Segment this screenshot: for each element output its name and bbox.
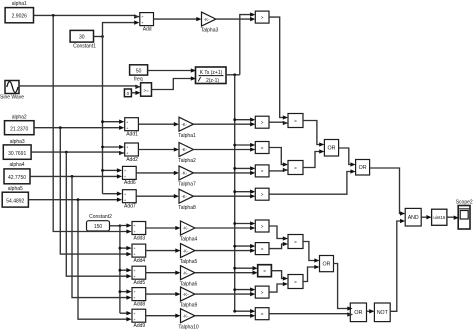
wire stub to Add5 top input	[120, 268, 132, 272]
wire gain to R bottom input	[193, 122, 255, 126]
svg-text:Talpha4: Talpha4	[180, 237, 198, 243]
gain Talpha7	[178, 166, 196, 188]
constant alpha1 (2.9026)	[5, 1, 33, 23]
wire alpha4 bus down to Add8	[72, 176, 132, 299]
wire stub to Add1 top input	[103, 120, 125, 124]
svg-text:+: +	[134, 318, 136, 322]
logic OR C	[320, 256, 334, 272]
svg-text:-K-: -K-	[183, 248, 189, 253]
svg-text:30: 30	[79, 34, 85, 40]
svg-text:OR: OR	[359, 165, 367, 171]
wire OR A output to OR B top input	[338, 148, 355, 167]
relational S4 (>)	[288, 275, 303, 289]
node bus Add8	[119, 290, 122, 293]
wire R1 output to S1 bottom input	[269, 121, 288, 125]
svg-text:OR: OR	[354, 310, 362, 316]
svg-text:+: +	[134, 230, 136, 234]
wire gain to R bottom input	[193, 147, 255, 151]
svg-text:K Ts (z+1): K Ts (z+1)	[200, 70, 223, 76]
svg-text:OR: OR	[323, 261, 331, 267]
gain Talpha6	[180, 266, 198, 288]
wire integrator output	[226, 74, 240, 76]
source Sine Wave	[0, 81, 24, 101]
svg-text:Talpha2: Talpha2	[178, 158, 196, 164]
wire stub to Add6 top input	[103, 168, 123, 172]
constant alpha5 (54.4892)	[2, 186, 28, 207]
discrete-time integrator (K Ts (z+1) / 2(z-1))	[196, 67, 227, 84]
svg-text:+: +	[134, 275, 136, 279]
svg-text:2(z-1): 2(z-1)	[206, 78, 219, 84]
svg-text:42.7750: 42.7750	[8, 175, 26, 181]
relational R7 (>)	[258, 265, 272, 277]
constant Constant1 (30)	[70, 30, 96, 49]
wire ramp stub to R top input	[233, 287, 255, 291]
svg-text:+: +	[134, 253, 136, 257]
svg-text:+: +	[134, 224, 136, 228]
wire Add to Talpha	[146, 226, 181, 230]
svg-text:>=: >=	[144, 88, 150, 93]
svg-text:2.9026: 2.9026	[12, 14, 28, 20]
node alpha5 branch	[77, 198, 80, 201]
svg-text:alpha5: alpha5	[8, 186, 23, 192]
wire stub to Add7 top input	[103, 192, 123, 196]
svg-text:Talpha10: Talpha10	[178, 324, 199, 330]
wire OR C output down to OR D top input	[334, 264, 353, 311]
svg-text:Scope2: Scope2	[456, 199, 473, 205]
svg-text:Talpha8: Talpha8	[178, 205, 196, 211]
relational R0 (>)	[255, 11, 269, 23]
svg-text:-K-: -K-	[204, 17, 210, 22]
wire R0 output down to S1 top input	[269, 17, 288, 120]
svg-text:-K-: -K-	[183, 226, 189, 231]
relational R2 (>)	[255, 142, 269, 154]
svg-text:>: >	[261, 224, 264, 229]
svg-text:>: >	[261, 290, 264, 295]
svg-text:>: >	[261, 120, 264, 125]
svg-text:-K-: -K-	[181, 122, 187, 127]
wire R4 output up to OR B bottom input	[269, 169, 356, 194]
wire gain to R bottom input	[195, 271, 258, 275]
svg-text:Add: Add	[143, 26, 152, 32]
wire Constant2 to bus	[110, 225, 120, 227]
relational R3 (>)	[255, 165, 269, 177]
wire Add to Talpha	[146, 314, 181, 318]
logic OR D	[350, 303, 366, 322]
svg-text:Add1: Add1	[126, 132, 138, 138]
svg-text:+: +	[141, 21, 143, 25]
wire ramp stub to R top input	[233, 309, 255, 313]
svg-text:-K-: -K-	[181, 147, 187, 152]
wire alpha3 bus down to Add5	[66, 152, 131, 278]
wire alpha4 to Add6 bottom input	[30, 174, 122, 178]
svg-text:+: +	[134, 312, 136, 316]
wire uint16 to Scope2	[447, 216, 459, 220]
wire gain to R bottom input	[195, 248, 255, 252]
svg-text:>: >	[261, 246, 264, 251]
relational R5 (>)	[255, 220, 269, 232]
svg-text:alpha2: alpha2	[12, 114, 27, 120]
scope Scope2	[456, 199, 473, 229]
wire ramp bus down	[234, 75, 236, 311]
sum Add3	[132, 222, 146, 242]
svg-text:Add8: Add8	[134, 301, 146, 307]
svg-text:>: >	[294, 165, 297, 170]
svg-text:alpha1: alpha1	[12, 1, 27, 7]
svg-text:+: +	[126, 152, 128, 156]
sum Add	[140, 13, 154, 33]
svg-text:Add4: Add4	[134, 258, 146, 264]
wire R7 output down to S4 top input	[271, 271, 288, 281]
constant alpha2 (21.2370)	[5, 114, 35, 134]
wire OR B output to AND top input	[370, 168, 406, 216]
wire alpha1 to Add top input	[34, 14, 140, 18]
gain Talpha5	[180, 244, 198, 266]
svg-text:+: +	[141, 15, 143, 19]
wire gain to R bottom input	[195, 226, 255, 230]
svg-text:+: +	[134, 290, 136, 294]
wire Constant1 bus down	[102, 37, 104, 194]
constant freq (50)	[130, 65, 148, 83]
relational S3 (>)	[288, 235, 303, 249]
svg-text:Constant1: Constant1	[73, 43, 96, 49]
logic OR A	[324, 140, 338, 157]
svg-text:+: +	[134, 247, 136, 251]
svg-text:OR: OR	[328, 146, 336, 152]
constant zero (0)	[124, 89, 131, 97]
node ramp tee	[233, 73, 236, 76]
logic NOT	[374, 303, 390, 322]
wire ramp stub to R top input	[233, 190, 255, 194]
svg-text:-K-: -K-	[183, 313, 189, 318]
svg-text:+: +	[124, 198, 126, 202]
wire Add6 to Talpha	[136, 171, 179, 175]
svg-text:Add7: Add7	[124, 204, 136, 210]
wire Add1 to Talpha	[138, 122, 179, 126]
svg-text:+: +	[126, 126, 128, 130]
sum Add9	[132, 309, 146, 329]
sum Add6	[123, 166, 137, 186]
svg-text:Add2: Add2	[126, 157, 138, 163]
sum Add4	[132, 244, 146, 264]
svg-text:30.7691: 30.7691	[8, 151, 26, 157]
wire alpha3 to Add2 bottom input	[31, 151, 124, 155]
wire gain to R bottom input	[195, 314, 255, 318]
sum Add1	[125, 118, 139, 138]
svg-text:+: +	[124, 175, 126, 179]
wire gain to R bottom input	[195, 292, 255, 296]
svg-text:>: >	[261, 312, 264, 317]
wire NOT output up to AND bottom input	[390, 219, 405, 311]
wire AND output to uint16	[421, 215, 431, 219]
wire alpha5 to Add7 bottom input	[28, 198, 122, 202]
svg-text:Talpha1: Talpha1	[178, 133, 196, 139]
gain Talpha10	[178, 309, 199, 331]
svg-text:>: >	[294, 279, 297, 284]
svg-text:Add6: Add6	[124, 180, 136, 186]
svg-text:+: +	[134, 296, 136, 300]
svg-text:Talpha7: Talpha7	[178, 182, 196, 188]
node bus Add4	[119, 247, 122, 250]
wire alpha5 bus down to Add9	[78, 200, 132, 322]
wire OR D output to NOT input	[367, 309, 375, 313]
gain Talpha1	[178, 117, 196, 139]
node bus Add1	[101, 120, 104, 123]
wire R8 output up to S4 bottom input	[269, 282, 288, 292]
svg-text:+: +	[124, 192, 126, 196]
wire gain to R bottom input	[193, 194, 255, 198]
relational R6 (>)	[255, 243, 269, 255]
svg-text:-K-: -K-	[181, 194, 187, 199]
wire Add to Talpha	[146, 271, 181, 275]
wire S2 output up to OR A bottom input	[303, 149, 324, 167]
svg-text:Talpha3: Talpha3	[201, 28, 219, 34]
wire R3 output to S2 bottom input	[269, 168, 288, 172]
svg-text:50: 50	[136, 69, 142, 75]
svg-text:freq: freq	[134, 76, 143, 82]
node alpha4 branch	[71, 175, 74, 178]
svg-text:NOT: NOT	[377, 310, 389, 316]
wire 0 to >= bottom input	[131, 91, 140, 95]
svg-text:Add5: Add5	[134, 280, 146, 286]
wire Constant2 to Add3 top input	[120, 223, 132, 227]
node bus Add5	[119, 269, 122, 272]
sum Add5	[132, 266, 146, 286]
wire ramp stub to R top input	[233, 221, 255, 225]
logic OR B	[356, 160, 370, 176]
node alpha2 branch	[59, 126, 62, 129]
wire stub to Add2 top input	[103, 145, 125, 149]
wire S4 output up to OR C bottom input	[303, 265, 320, 282]
node bus Add6	[101, 169, 104, 172]
svg-text:uint16: uint16	[433, 215, 446, 220]
svg-text:>: >	[263, 269, 266, 274]
wire Add to Talpha3	[154, 17, 202, 21]
relational S2 (>)	[288, 161, 303, 175]
node bus Add2	[101, 146, 104, 149]
relational R4 (>)	[255, 188, 269, 200]
wire S3 output to OR C top input	[303, 242, 320, 263]
wire Constant1 to bus	[94, 36, 103, 38]
svg-text:alpha4: alpha4	[9, 162, 24, 168]
node Constant2 tee	[119, 224, 122, 227]
wire ramp stub to R top input	[233, 266, 257, 270]
svg-text:0: 0	[127, 91, 130, 96]
wire Add7 to Talpha	[136, 194, 179, 198]
wire ramp stub to R top input	[233, 244, 255, 248]
constant Constant2 (150)	[87, 214, 113, 231]
svg-text:>: >	[294, 239, 297, 244]
sum Add7	[123, 190, 137, 210]
svg-text:Constant2: Constant2	[89, 214, 112, 220]
wire stub to Add4 top input	[120, 246, 132, 250]
gain Talpha2	[178, 143, 196, 165]
wire Sine Wave to >= top input	[19, 85, 141, 89]
wire gain to R bottom input	[193, 171, 255, 175]
svg-text:-K-: -K-	[183, 292, 189, 297]
wire stub to Add8 top input	[120, 289, 132, 293]
svg-text:Talpha6: Talpha6	[180, 281, 198, 287]
wire Constant1 bus up to Add bottom input	[103, 20, 140, 36]
sum Add8	[132, 288, 146, 308]
wire ramp stub to R top input	[233, 118, 255, 122]
wire R9 output to OR D bottom input	[269, 312, 353, 316]
wire ramp stub to R top input	[233, 166, 255, 170]
node Constant1 tee	[101, 35, 104, 38]
svg-text:+: +	[126, 146, 128, 150]
svg-text:150: 150	[94, 224, 103, 230]
wire freq 50 to integrator input	[148, 68, 196, 72]
svg-text:54.4892: 54.4892	[6, 199, 24, 205]
svg-text:>: >	[261, 169, 264, 174]
constant alpha4 (42.7750)	[4, 162, 30, 184]
relational S1 (>)	[288, 114, 303, 128]
svg-text:Talpha9: Talpha9	[180, 303, 198, 309]
wire stub to Add9 top input	[120, 311, 132, 315]
wire R2 output down to S2 top input	[269, 148, 288, 167]
wire S1 output to OR A top input	[303, 121, 324, 147]
svg-text:+: +	[134, 269, 136, 273]
svg-text:>: >	[261, 15, 264, 20]
gain Talpha3	[201, 12, 219, 34]
svg-text:21.2370: 21.2370	[10, 127, 28, 133]
svg-text:alpha3: alpha3	[10, 139, 25, 145]
svg-text:-K-: -K-	[183, 270, 189, 275]
wire R6 output up to S3 bottom input	[269, 242, 288, 249]
gain Talpha4	[180, 221, 198, 243]
wire alpha1 bus down to Add3	[53, 15, 131, 233]
svg-text:>: >	[294, 118, 297, 123]
svg-text:Talpha5: Talpha5	[180, 259, 198, 265]
svg-text:>: >	[261, 145, 264, 150]
wire R5 output down to S3 top input	[269, 226, 288, 241]
wire Talpha3 to R0 bottom input	[216, 17, 255, 21]
svg-text:+: +	[126, 120, 128, 124]
svg-text:Add9: Add9	[134, 323, 146, 329]
svg-text:-K-: -K-	[181, 171, 187, 176]
svg-text:+: +	[124, 169, 126, 173]
data type conversion uint16	[432, 209, 447, 225]
node alpha3 branch	[65, 151, 68, 154]
gain Talpha9	[180, 287, 198, 309]
sum Add2	[125, 143, 139, 163]
relational R1 (>)	[255, 116, 269, 128]
relational R9 (>)	[255, 308, 269, 320]
node alpha1 branch	[52, 14, 55, 17]
relational R8 (>)	[255, 286, 269, 298]
wire Add to Talpha	[146, 292, 181, 296]
svg-text:AND: AND	[408, 215, 419, 221]
logic AND	[405, 208, 421, 226]
wire >= to integrator reset input	[152, 76, 197, 89]
svg-text:Sine Wave: Sine Wave	[0, 95, 24, 101]
wire Add2 to Talpha	[138, 147, 179, 151]
wire Add to Talpha	[146, 248, 181, 252]
wire ramp stub to R top input	[233, 143, 255, 147]
wire alpha2 bus down to Add4	[60, 128, 131, 257]
svg-text:>: >	[261, 192, 264, 197]
gain Talpha8	[178, 189, 196, 211]
wire alpha2 to Add1 bottom input	[34, 126, 124, 130]
wire Constant2 bus down	[119, 226, 121, 313]
relational operator >= (sine vs 0)	[141, 83, 152, 96]
svg-text:Add3: Add3	[134, 235, 146, 241]
wire ramp riser to R0 top input	[240, 12, 256, 74]
constant alpha3 (30.7691)	[3, 139, 31, 159]
